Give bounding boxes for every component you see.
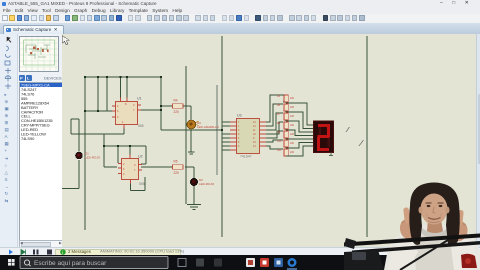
node 161-106 [160, 105, 162, 107]
node 130-146 [129, 145, 131, 147]
wire secondary rail x217 [216, 85, 218, 175]
shirt collar [422, 228, 448, 239]
mouse cursor mark 2 [359, 140, 364, 146]
node 118-146 [117, 145, 119, 147]
LED D2 red [190, 178, 214, 186]
wire LED2 to ground x194 [193, 186, 195, 204]
wire inter-stage x104 [103, 134, 105, 167]
resistor R9 vertical [284, 131, 288, 138]
wire R1 feed y106 [161, 105, 172, 107]
node rail-161 [160, 76, 162, 78]
devices list horizontal scrollbar [19, 240, 64, 248]
wire clock drop x161 [160, 77, 162, 130]
hair [409, 183, 459, 246]
wire 555#2 top pin x130 [129, 146, 131, 158]
left thumb [403, 207, 411, 224]
wire 555#1 output right y110 [141, 109, 161, 111]
right thumb [457, 210, 464, 226]
wire left rail x85 [84, 77, 86, 230]
junction dots [84, 76, 223, 147]
mic boom arm bar 2 [352, 241, 480, 254]
resistor R8 vertical [284, 122, 288, 129]
ground symbol near D2 [187, 205, 201, 210]
resistor R7 vertical [284, 113, 288, 120]
LED D1 red [75, 151, 101, 159]
wire ladder U3 outputs to resistor pack [266, 95, 283, 149]
node rail-107 [106, 76, 108, 78]
wire LED1 top x79 [78, 119, 80, 151]
resistor R3 vertical [283, 95, 288, 102]
node rail-127 [126, 76, 128, 78]
7-segment display [314, 121, 334, 153]
red object bottom right [461, 254, 477, 268]
desk gear dark mass [344, 250, 384, 270]
wire LED1 bottom x79 [62, 160, 79, 189]
resistor R1 [173, 99, 184, 115]
wire 555#1 top-pin drop x127 [126, 77, 128, 101]
wire LED3 top x191 [190, 106, 192, 120]
wire 555#2 pin feed y167 [104, 166, 117, 168]
wire 555#1 pin2 feed y111 [85, 110, 112, 112]
resistor R2 [173, 160, 184, 176]
start button [0, 255, 480, 270]
wire 555#2 bottom U [131, 177, 146, 190]
resistor R11 vertical [284, 149, 288, 156]
left arm [388, 237, 418, 270]
node rail-120 [119, 76, 121, 78]
node 98-111 [97, 110, 99, 112]
P L DEVICES header [19, 75, 25, 81]
mouse cursor mark 1 [346, 127, 350, 132]
wire clock run y130 to U3 [161, 129, 222, 131]
left fist [398, 218, 416, 240]
nose + mouth [433, 207, 436, 213]
wire ladder resistor pack to display [286, 102, 313, 156]
LED D3 yellow [187, 120, 220, 129]
wire LED3 bottom x191 [190, 129, 192, 152]
taskbar app icons [178, 259, 186, 267]
node 85-111 [84, 110, 86, 112]
op IC 74LS47 U3 [230, 119, 266, 154]
wire 555#1 bottom loop [71, 119, 124, 134]
torso white shirt [384, 225, 480, 270]
node 104-146 [103, 145, 105, 147]
left mode-select toolbar icons [0, 34, 17, 247]
right arm [450, 235, 477, 270]
wire 555#2 left drop x118 [117, 146, 119, 163]
overview minimap of schematic [20, 37, 58, 71]
eyes [427, 205, 431, 207]
search box [20, 257, 168, 269]
right fist [450, 220, 469, 242]
node rail-85 [84, 76, 86, 78]
ground symbol below D3 [188, 152, 195, 154]
mic boom rod [400, 240, 448, 270]
node 161-110 [160, 109, 162, 111]
wire long vertical rail x367 [366, 36, 368, 237]
ears [419, 207, 423, 214]
resistor R6 vertical [284, 104, 288, 111]
wire U3 input stubs from rail x222 [222, 122, 230, 150]
wire 555#1 left drop x107 [106, 77, 108, 111]
wire 555#2 rail y146 [104, 145, 146, 147]
node rail-98 [97, 76, 99, 78]
mic clamp left [344, 238, 356, 249]
mic boom arm bar 1 [344, 234, 480, 247]
wire R2 to LED2 y167 [185, 167, 194, 178]
white arrow cursor top-left [62, 36, 69, 45]
wire VCC top rail y77 [85, 76, 161, 78]
neck [427, 220, 443, 234]
ground pin below display [329, 153, 333, 156]
op IC 555 U2 [118, 155, 142, 184]
node 222-130 [221, 129, 223, 131]
face [421, 194, 448, 225]
op IC 555 U1 [112, 98, 141, 129]
wire long vertical rail x222 [221, 36, 223, 237]
wire long vertical rail x186 [185, 66, 187, 204]
wire 555#2 output y167 [141, 166, 172, 168]
label resistor pack values [277, 95, 295, 154]
wire 555#1 reset drop x120.5 [120, 77, 122, 101]
wire R1 to LED3 y106 [183, 105, 191, 107]
resistor R10 vertical [284, 140, 288, 147]
wire 555#2 reset drop x146 [141, 146, 146, 164]
wire 555#1 pin5 drop x98 [97, 77, 99, 111]
